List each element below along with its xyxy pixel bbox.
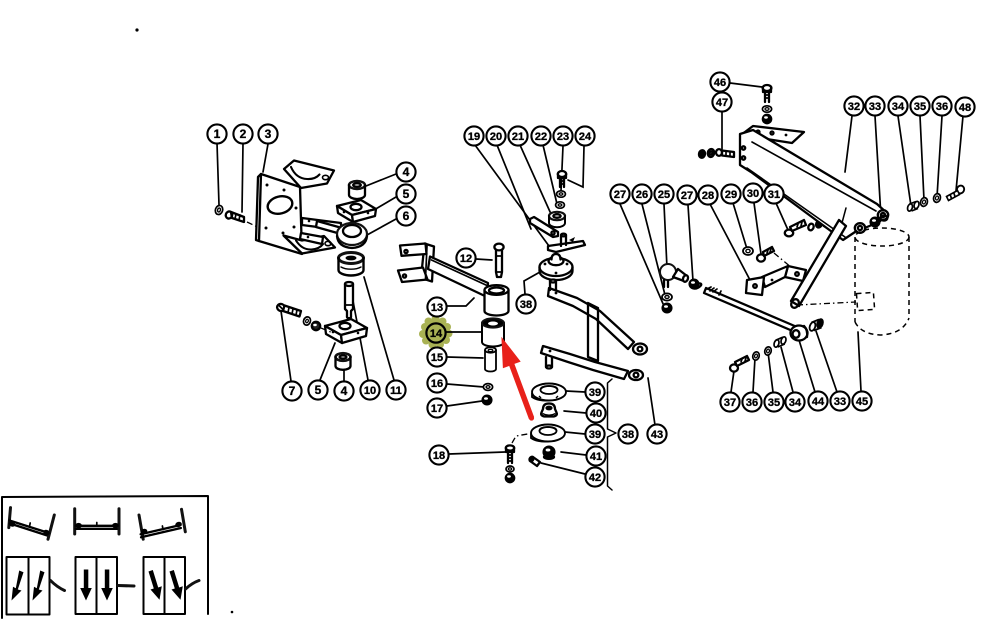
leader line [730, 83, 762, 87]
callout 13 [427, 297, 446, 316]
leader line [366, 174, 396, 186]
legend icon tedder tilted right-down [8, 508, 54, 540]
svg-text:26: 26 [636, 189, 648, 201]
leader line [753, 358, 755, 392]
leader line [781, 347, 793, 392]
callout 28 [698, 185, 717, 204]
bracket 3 top flange with slots [284, 161, 334, 189]
callout 27 [677, 185, 696, 204]
svg-text:33: 33 [834, 396, 846, 408]
leader line [447, 384, 484, 387]
svg-text:13: 13 [431, 302, 443, 314]
nut part 27 left [663, 304, 672, 313]
svg-text:20: 20 [490, 131, 502, 143]
dash-dot bolt31 to beam [823, 226, 842, 238]
leader line [776, 203, 788, 230]
leader line [343, 370, 345, 381]
callout 6 [396, 206, 415, 225]
leader line [565, 432, 585, 434]
svg-text:15: 15 [431, 352, 443, 364]
callout 12 [456, 248, 475, 267]
svg-text:32: 32 [848, 101, 860, 113]
ring part 6 [337, 223, 367, 248]
leader 38 hub bent [524, 272, 540, 294]
svg-text:5: 5 [403, 187, 410, 201]
legend tiles pair 3 (splayed arrows) [144, 557, 200, 614]
callout 26 [632, 184, 651, 203]
callout 43 [647, 424, 666, 443]
nut part 41 [544, 447, 555, 459]
hydraulic cylinder part 45 (dashed) [855, 228, 909, 335]
callout 32 [844, 96, 863, 115]
bushing part 14 [482, 318, 504, 346]
svg-text:12: 12 [460, 253, 472, 265]
leader line [242, 143, 243, 212]
callout 4 [396, 162, 415, 181]
bracket 3 oval hole [266, 194, 294, 217]
bolt part 46 [763, 85, 772, 102]
nut part 17 [483, 396, 492, 405]
washer part 23 [557, 191, 566, 197]
washers for 31 [807, 220, 822, 231]
washer part 1 [214, 205, 224, 216]
bracket 3 rivet holes [266, 184, 269, 187]
callout 19 [464, 126, 483, 145]
washer for 18 [506, 466, 514, 472]
leader line [731, 371, 734, 392]
callout 36 [932, 96, 951, 115]
svg-text:22: 22 [535, 131, 547, 143]
svg-text:18: 18 [433, 450, 445, 462]
svg-text:44: 44 [812, 396, 825, 408]
svg-text:46: 46 [714, 77, 726, 89]
leader line [447, 357, 483, 358]
pin part 10 [345, 282, 353, 318]
connector channel of 38 [588, 303, 598, 361]
block part 5 lower [325, 319, 367, 343]
stray scan dot bottom-right of legend [231, 611, 234, 614]
callout 27 [610, 184, 629, 203]
cap part 40 [541, 404, 557, 417]
tie rod [704, 287, 797, 332]
callout 5 [308, 380, 327, 399]
leader line [768, 352, 773, 392]
plate part 19 [548, 234, 585, 252]
nut part 33 upper with washer [871, 215, 888, 226]
cup part 39 upper [532, 384, 566, 401]
bolt part 48 [947, 184, 966, 200]
bushing part 4 upper [349, 181, 365, 199]
leader line [475, 145, 549, 246]
top plate of frame 32 [741, 126, 804, 143]
block part 5 upper [337, 200, 376, 222]
callout 4 [334, 381, 353, 400]
leader line [710, 204, 750, 280]
highlight blob around callout 14 [419, 315, 453, 349]
red arrow pointing to part 14 [501, 337, 534, 421]
callout 11 [386, 380, 405, 399]
leader line [956, 116, 963, 191]
washer part 16 [483, 384, 492, 391]
dash-dot bolt30 to bracket28 [774, 253, 792, 268]
leader line [620, 204, 664, 306]
svg-text:27: 27 [614, 189, 626, 201]
hub part 38 [540, 254, 573, 280]
svg-text:16: 16 [431, 378, 443, 390]
leader line [449, 452, 505, 454]
callout 30 [743, 183, 762, 202]
leader line [920, 116, 924, 200]
ball joint part 25 [660, 264, 689, 287]
svg-text:31: 31 [768, 189, 780, 201]
svg-text:19: 19 [468, 131, 480, 143]
leader line [664, 204, 667, 268]
svg-text:37: 37 [724, 397, 736, 409]
arm from bracket to ring 6 [300, 218, 342, 244]
leader 14 [446, 331, 481, 333]
svg-text:21: 21 [512, 131, 524, 143]
bushing part 34 upper [907, 201, 920, 212]
pin part 12 [494, 244, 503, 277]
leader line [520, 145, 551, 214]
callout 36 [742, 392, 761, 411]
bolt part 24 [558, 171, 566, 187]
bolt part 2 [225, 211, 244, 222]
arm 13 end cylinder [485, 285, 509, 315]
svg-text:10: 10 [364, 385, 376, 397]
bolt part 18 [506, 445, 514, 463]
leader line [543, 145, 557, 204]
frame beam 32 [740, 130, 888, 240]
link bar (diagonal) [790, 220, 846, 309]
callout 14 (bold ring on highlight) [426, 323, 445, 342]
callout 48 [955, 97, 974, 116]
leader line [816, 331, 837, 392]
washers for 47 [698, 148, 715, 158]
svg-text:35: 35 [914, 101, 926, 113]
bolt part 30 [757, 247, 774, 262]
svg-text:39: 39 [589, 387, 601, 399]
legend tiles pair 1 (slanted arrows) [7, 557, 65, 615]
leader line [476, 259, 492, 260]
svg-text:42: 42 [589, 472, 601, 484]
svg-text:38: 38 [622, 429, 634, 441]
svg-text:30: 30 [747, 188, 759, 200]
svg-text:17: 17 [431, 403, 443, 415]
bushing part 33 lower [809, 318, 824, 331]
callout 15 [427, 347, 446, 366]
dash-dot from link bar to cylinder square [797, 302, 856, 305]
leader line [564, 411, 586, 413]
stray scan dot top-left [135, 28, 138, 31]
svg-text:33: 33 [869, 101, 881, 113]
leader line [374, 197, 396, 210]
leader line [447, 401, 482, 406]
callout 47 [712, 92, 731, 111]
callout 42 [585, 467, 604, 486]
leader line [367, 219, 396, 235]
leader 13 bent [447, 298, 474, 306]
leader line [799, 340, 815, 392]
bushing part 21 [549, 212, 565, 227]
svg-text:24: 24 [579, 131, 592, 143]
dash-dot line bolt2 to bracket [247, 222, 270, 233]
leader line [875, 116, 881, 217]
callout 5 [396, 184, 415, 203]
lower lever of 38/43 [541, 346, 643, 380]
washer part 35 upper [920, 197, 929, 207]
leader line [497, 145, 531, 229]
callout 16 [427, 373, 446, 392]
svg-text:14: 14 [430, 328, 443, 340]
svg-text:23: 23 [557, 131, 569, 143]
svg-text:4: 4 [403, 165, 410, 179]
upper lever of 38 [548, 280, 647, 355]
svg-text:5: 5 [315, 383, 322, 397]
callout 3 [258, 124, 277, 143]
svg-text:34: 34 [789, 397, 802, 409]
leader line [898, 116, 911, 206]
bracket 3 bottom flange with slots [284, 236, 336, 254]
leader line [754, 203, 761, 254]
callout 34 [785, 392, 804, 411]
callout 2 [233, 124, 252, 143]
washer part 35 lower [764, 346, 772, 356]
leader line [937, 116, 942, 197]
svg-text:34: 34 [892, 101, 905, 113]
callout 7 [282, 381, 301, 400]
leader 24 bent [568, 146, 584, 187]
svg-text:7: 7 [289, 384, 296, 398]
pin part 15 [485, 347, 496, 371]
svg-text:35: 35 [768, 397, 780, 409]
washer part 22 [556, 202, 565, 208]
callout 44 [808, 391, 827, 410]
callout 31 [764, 184, 783, 203]
callout 39 [585, 424, 604, 443]
callout 25 [654, 184, 673, 203]
callout 1 [207, 124, 226, 143]
svg-text:6: 6 [403, 209, 410, 223]
svg-text:43: 43 [651, 429, 663, 441]
svg-text:41: 41 [590, 451, 602, 463]
bracket part 28 [746, 266, 806, 295]
leader line [320, 343, 335, 380]
washer part 36 lower [752, 351, 760, 361]
leader line [733, 203, 747, 249]
leader line [845, 116, 852, 172]
callout 33 [865, 96, 884, 115]
callout 22 [531, 126, 550, 145]
callout 10 [360, 380, 379, 399]
callout 45 [852, 391, 871, 410]
callout 21 [508, 126, 527, 145]
leader line [648, 378, 655, 425]
callout 20 [486, 126, 505, 145]
svg-text:11: 11 [390, 385, 402, 397]
dark bushing part 11 [339, 253, 364, 276]
legend tiles pair 2 (straight down arrows) [76, 557, 135, 614]
callout 18 [429, 445, 448, 464]
leader line [561, 452, 586, 455]
leader line [364, 277, 394, 380]
bolt part 47 [716, 149, 734, 157]
washer part 26 [662, 293, 672, 300]
callout 39 [585, 382, 604, 401]
leader line [566, 391, 585, 392]
washer for 7 [302, 316, 311, 326]
leader line [688, 205, 693, 281]
callout 37 [720, 392, 739, 411]
nut for 46 [763, 115, 771, 123]
svg-text:27: 27 [681, 190, 693, 202]
svg-text:47: 47 [716, 97, 728, 109]
leader line [721, 112, 723, 149]
legend box border [2, 496, 208, 618]
legend icon tedder level [75, 509, 119, 534]
dash-dot nut7 to block [321, 328, 333, 333]
callout 38 [516, 294, 535, 313]
bolt part 37 [730, 356, 749, 372]
callout 35 [764, 392, 783, 411]
svg-text:40: 40 [590, 408, 602, 420]
svg-text:28: 28 [702, 190, 714, 202]
washer part 36 upper [933, 193, 942, 203]
clevis of arm 13 [398, 244, 434, 283]
callout 46 [710, 72, 729, 91]
leader line [217, 143, 219, 205]
bushing part 34 lower [773, 336, 787, 348]
svg-text:1: 1 [214, 127, 221, 141]
nut for 7 [312, 322, 320, 330]
bolt part 7 [276, 303, 301, 317]
leader line [561, 146, 563, 191]
leader line [858, 332, 861, 391]
callout 24 [575, 126, 594, 145]
svg-text:2: 2 [240, 127, 247, 141]
callout 33 [830, 391, 849, 410]
svg-text:38: 38 [520, 299, 532, 311]
callout 38 [618, 424, 637, 443]
nut part 27 right [690, 280, 702, 290]
leader line [281, 311, 291, 381]
svg-text:4: 4 [341, 384, 348, 398]
strip part 20 [530, 217, 558, 237]
svg-text:25: 25 [658, 189, 670, 201]
svg-text:29: 29 [725, 189, 737, 201]
callout 29 [721, 184, 740, 203]
bolt part 31 [785, 220, 806, 236]
bracket part 3 : main face [256, 161, 335, 255]
legend icon tedder tilted left-down [139, 509, 185, 539]
brace bracket for 38 [608, 379, 617, 490]
leader line [642, 204, 665, 295]
callout 23 [553, 126, 572, 145]
callout 34 [888, 96, 907, 115]
rod end eye part 44 [791, 326, 808, 341]
dash-dot bolt18 to cup [512, 431, 545, 443]
svg-text:45: 45 [856, 396, 868, 408]
callout 40 [586, 403, 605, 422]
svg-text:36: 36 [746, 397, 758, 409]
leader line [263, 144, 268, 172]
nut for 18 [506, 474, 514, 482]
leader line [353, 301, 368, 380]
callout 17 [427, 398, 446, 417]
callout 35 [910, 96, 929, 115]
svg-text:48: 48 [959, 102, 971, 114]
washer for 46 [762, 106, 771, 112]
washer part 29 [743, 247, 753, 255]
svg-text:36: 36 [936, 101, 948, 113]
arm 13 shaft [428, 257, 488, 298]
leader line [541, 463, 585, 474]
svg-text:39: 39 [589, 429, 601, 441]
bushing part 4 lower [336, 353, 351, 370]
callout 41 [586, 446, 605, 465]
beam fork eyes [855, 223, 865, 233]
cup part 39 lower [531, 425, 565, 442]
pin part 42 [529, 456, 540, 466]
svg-text:3: 3 [265, 127, 272, 141]
